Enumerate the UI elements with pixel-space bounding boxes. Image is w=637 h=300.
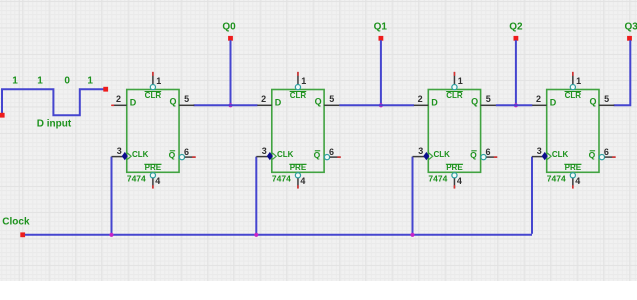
U1 pin 1 CLR (inverted, unconnected) — [150, 72, 161, 90]
junction node Q2 — [514, 103, 518, 107]
U4 clock triangle — [547, 153, 551, 159]
svg-text:3: 3 — [262, 146, 267, 156]
svg-text:D: D — [431, 98, 438, 108]
svg-text:CLK: CLK — [434, 150, 451, 159]
U3 pin 6 Qbar output (inverted, unconnected) — [481, 147, 497, 160]
junction on clock bus at U2 riser — [254, 233, 258, 237]
U4 pin 3 CLK lead — [532, 146, 543, 157]
svg-text:7474: 7474 — [428, 174, 447, 184]
U1 pin 5 Q output lead — [179, 94, 194, 105]
Q0 endpoint — [228, 36, 233, 41]
svg-text:Q: Q — [314, 150, 321, 160]
U3 clock edge marker — [423, 152, 429, 160]
wire: Q3 from U4 Q — [614, 40, 631, 105]
U4 pin 5 Q output lead — [599, 94, 614, 105]
U2 clock edge marker — [267, 152, 273, 160]
svg-text:1: 1 — [12, 76, 18, 87]
D input bit labels 1 1 0 1 — [12, 76, 93, 87]
U2 pin 5 Q output lead — [324, 94, 339, 105]
junction node Q1 — [379, 103, 383, 107]
svg-text:3: 3 — [418, 146, 423, 156]
svg-text:1: 1 — [576, 76, 581, 86]
U3 pin 2 D input lead — [414, 94, 429, 105]
svg-text:0: 0 — [64, 76, 70, 87]
U4 pin 4 PRE (inverted, unconnected) — [570, 173, 580, 189]
U1 label PRE — [144, 163, 161, 172]
U1 pin 3 CLK lead — [112, 146, 124, 157]
svg-text:1: 1 — [301, 76, 306, 86]
svg-text:CLK: CLK — [552, 150, 569, 159]
svg-text:7474: 7474 — [547, 174, 566, 184]
svg-text:Q: Q — [471, 97, 478, 107]
svg-text:Q1: Q1 — [374, 21, 388, 32]
junction node Q0 — [228, 103, 232, 107]
wire: clock riser to U3 CLK — [412, 157, 414, 234]
svg-text:1: 1 — [87, 76, 93, 87]
svg-text:1: 1 — [156, 76, 161, 86]
U1 label Qbar — [169, 150, 176, 160]
svg-text:2: 2 — [261, 94, 266, 104]
svg-text:4: 4 — [457, 176, 462, 186]
svg-text:Clock: Clock — [2, 216, 30, 227]
svg-text:CLR: CLR — [565, 91, 582, 100]
svg-text:3: 3 — [537, 146, 542, 156]
wire: clock riser to U2 CLK — [255, 157, 257, 234]
svg-text:D: D — [130, 98, 137, 108]
U1 clock edge marker — [122, 152, 128, 160]
wire: clock riser to U1 CLK — [111, 157, 113, 234]
U3 label CLR — [446, 91, 463, 100]
U1 pin 4 PRE (inverted, unconnected) — [150, 173, 160, 189]
svg-text:CLK: CLK — [132, 150, 149, 159]
svg-text:5: 5 — [184, 94, 189, 104]
wire: Q2 riser — [515, 40, 517, 106]
Q2 endpoint — [514, 36, 519, 41]
svg-text:5: 5 — [604, 94, 609, 104]
U4 pin 2 D input lead — [532, 94, 547, 105]
svg-text:CLR: CLR — [446, 91, 463, 100]
junction on clock bus at U3 riser — [410, 233, 414, 237]
U2 label PRE — [289, 163, 306, 172]
svg-text:4: 4 — [155, 176, 160, 186]
clock bus wire — [25, 234, 532, 236]
svg-text:3: 3 — [117, 146, 122, 156]
svg-text:D input: D input — [37, 119, 72, 130]
U3 label PRE — [446, 163, 463, 172]
U4 pin 1 CLR (inverted, unconnected) — [570, 72, 581, 90]
svg-text:4: 4 — [300, 176, 305, 186]
svg-text:CLK: CLK — [277, 150, 294, 159]
svg-text:Q3: Q3 — [625, 21, 637, 32]
svg-text:Q2: Q2 — [509, 21, 523, 32]
Q1 endpoint — [379, 36, 384, 41]
wire: U3 Q to U4 D — [496, 104, 533, 106]
svg-text:Q: Q — [589, 150, 596, 160]
svg-text:6: 6 — [329, 147, 334, 157]
junction on clock bus at U1 riser — [109, 233, 113, 237]
U2 pin 3 CLK lead — [256, 146, 268, 157]
svg-text:D: D — [550, 98, 557, 108]
wire: Q1 riser — [380, 40, 382, 106]
U1 pin 6 Qbar output (inverted, unconnected) — [179, 147, 195, 160]
svg-text:6: 6 — [604, 147, 609, 157]
U1 clock triangle — [127, 153, 131, 159]
svg-text:1: 1 — [37, 76, 43, 87]
svg-text:CLR: CLR — [290, 91, 307, 100]
svg-text:6: 6 — [184, 147, 189, 157]
svg-text:Q: Q — [315, 97, 322, 107]
svg-text:Q: Q — [169, 150, 176, 160]
U2 pin 2 D input lead — [257, 94, 272, 105]
U4 label Qbar — [589, 150, 596, 160]
Q3 endpoint — [627, 36, 632, 41]
wire: Q0 riser — [230, 40, 232, 106]
U4 pin 6 Qbar output (inverted, unconnected) — [599, 147, 615, 160]
U2 pin 1 CLR (inverted, unconnected) — [295, 72, 306, 90]
U4 label CLR — [565, 91, 582, 100]
clock source endpoint — [20, 232, 25, 237]
svg-text:Q: Q — [589, 97, 596, 107]
U3 pin 3 CLK lead — [413, 146, 425, 157]
svg-text:Q: Q — [470, 150, 477, 160]
U2 clock triangle — [272, 153, 276, 159]
svg-text:2: 2 — [116, 94, 121, 104]
U1 pin 2 D input lead — [111, 94, 127, 105]
svg-text:CLR: CLR — [145, 91, 162, 100]
U3 clock triangle — [429, 153, 433, 159]
svg-text:5: 5 — [486, 94, 491, 104]
D flip-flop U4 7474 body — [547, 90, 599, 173]
D flip-flop U1 7474 body — [127, 90, 179, 173]
wire: clock riser to U4 CLK — [531, 157, 533, 234]
wire: U2 Q to U3 D — [339, 104, 414, 106]
U2 label CLR — [290, 91, 307, 100]
U4 label PRE — [564, 163, 581, 172]
D flip-flop U3 7474 body — [428, 90, 480, 173]
svg-text:2: 2 — [418, 94, 423, 104]
U2 pin 6 Qbar output (inverted, unconnected) — [324, 147, 340, 160]
U3 pin 4 PRE (inverted, unconnected) — [452, 173, 462, 189]
U3 pin 1 CLR (inverted, unconnected) — [452, 72, 463, 90]
svg-text:2: 2 — [536, 94, 541, 104]
svg-text:Q: Q — [170, 97, 177, 107]
D flip-flop U2 7474 body — [272, 90, 324, 173]
svg-text:7474: 7474 — [127, 174, 146, 184]
svg-text:5: 5 — [329, 94, 334, 104]
svg-text:7474: 7474 — [272, 174, 291, 184]
U3 pin 5 Q output lead — [481, 94, 496, 105]
svg-text:Q0: Q0 — [222, 21, 236, 32]
U4 clock edge marker — [542, 152, 548, 160]
U3 label Qbar — [470, 150, 477, 160]
svg-text:D: D — [275, 98, 282, 108]
svg-text:1: 1 — [458, 76, 463, 86]
svg-text:6: 6 — [485, 147, 490, 157]
U2 pin 4 PRE (inverted, unconnected) — [295, 173, 305, 189]
U1 label CLR — [145, 91, 162, 100]
U2 label Qbar — [314, 150, 321, 160]
D input waveform source V1 — [0, 87, 108, 118]
svg-text:4: 4 — [575, 176, 580, 186]
wire: U1 Q to U2 D — [194, 104, 258, 106]
